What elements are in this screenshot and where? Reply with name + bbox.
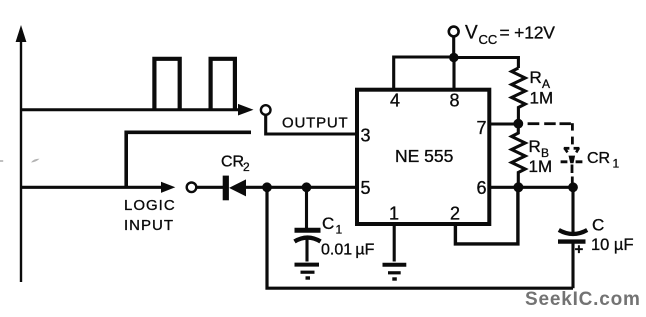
terminal OUTPUT <box>261 105 271 115</box>
wire junction B down to C1 <box>305 187 308 228</box>
svg-text:+: + <box>575 241 584 258</box>
label RB <box>529 137 550 160</box>
svg-text:OUTPUT: OUTPUT <box>282 115 348 132</box>
terminal Vcc <box>449 27 459 37</box>
capacitor C <box>558 230 587 288</box>
svg-text:2: 2 <box>243 160 250 174</box>
svg-text:10 µF: 10 µF <box>591 236 634 254</box>
svg-text:1: 1 <box>613 157 620 171</box>
ground under pin 1 <box>383 265 407 279</box>
svg-text:LOGIC: LOGIC <box>124 197 176 214</box>
svg-text:4: 4 <box>390 91 400 111</box>
svg-text:7: 7 <box>477 118 487 138</box>
svg-text:8: 8 <box>450 91 460 111</box>
bottom rail wire <box>267 190 573 289</box>
diode CR2 <box>223 176 246 201</box>
label C1 <box>322 214 343 237</box>
node pin 6 junction <box>513 182 523 192</box>
diode CR1 (dashed) <box>561 148 583 184</box>
label Vcc = +12V <box>465 23 555 48</box>
svg-text:1M: 1M <box>529 157 553 176</box>
wire Vcc node to resistor RA <box>454 58 519 69</box>
svg-text:R: R <box>530 68 542 87</box>
wire pin 4 up and over to Vcc node <box>394 57 452 89</box>
logic input line with arrow <box>21 182 175 193</box>
label CR2 <box>221 154 250 175</box>
label CR1 <box>587 150 620 171</box>
wire pin 7 <box>490 122 518 125</box>
label RA <box>530 68 551 91</box>
svg-text:5: 5 <box>361 178 371 198</box>
logic input waveform step <box>126 132 251 187</box>
scan speck at left edge <box>0 160 3 162</box>
output waveform baseline with arrow <box>21 104 254 116</box>
wire OUTPUT terminal to pin 3 <box>266 115 357 134</box>
scan smudge artifact <box>31 159 40 163</box>
wire pin 2 loop to pin 6 node <box>455 190 518 244</box>
svg-text:SeekIC.com: SeekIC.com <box>525 289 641 310</box>
node junction B (to C1) <box>302 182 312 192</box>
IC U1 NE 555 box <box>357 90 489 224</box>
node junction A (to bottom rail) <box>262 182 272 192</box>
wire pin6 node to C node <box>518 186 573 189</box>
svg-text:CC: CC <box>479 32 498 47</box>
output waveform pulse 2 <box>211 59 235 110</box>
wire terminal to diode CR2 <box>197 186 223 189</box>
svg-text:2: 2 <box>450 204 460 224</box>
svg-text:NE 555: NE 555 <box>395 146 453 166</box>
node pin 7 junction <box>513 119 523 129</box>
svg-text:C: C <box>322 214 334 233</box>
capacitor C1 <box>295 230 321 261</box>
svg-text:CR: CR <box>221 154 244 171</box>
node capacitor C top junction <box>568 182 578 192</box>
wire Vcc terminal down <box>452 37 455 58</box>
resistor RB <box>512 124 526 188</box>
svg-text:0.01 µF: 0.01 µF <box>321 242 375 259</box>
node Vcc junction <box>449 53 458 62</box>
label LOGIC INPUT <box>124 197 176 234</box>
svg-text:6: 6 <box>477 178 487 198</box>
svg-text:R: R <box>529 137 541 156</box>
waveform vertical axis <box>16 25 27 282</box>
wire pin 8 up to Vcc node <box>452 58 455 90</box>
svg-text:C: C <box>592 216 604 235</box>
ground under C1 <box>295 265 320 278</box>
terminal LOGIC INPUT <box>187 183 197 193</box>
svg-text:1M: 1M <box>530 89 554 108</box>
dashed wire pin7 node to CR1 <box>528 123 573 144</box>
svg-text:= +12V: = +12V <box>500 23 556 43</box>
svg-text:1: 1 <box>336 223 343 237</box>
wire diode to pin 5 <box>246 186 357 189</box>
svg-text:CR: CR <box>587 150 610 167</box>
svg-text:1: 1 <box>389 204 399 224</box>
svg-text:INPUT: INPUT <box>124 217 174 234</box>
output waveform pulse 1 <box>154 59 179 110</box>
svg-text:3: 3 <box>361 126 371 146</box>
wire pin 1 to ground <box>393 224 396 262</box>
wire pin 6 <box>490 186 518 189</box>
svg-text:V: V <box>465 23 478 44</box>
wire C node down to capacitor C <box>571 187 574 232</box>
resistor RA <box>512 68 526 120</box>
